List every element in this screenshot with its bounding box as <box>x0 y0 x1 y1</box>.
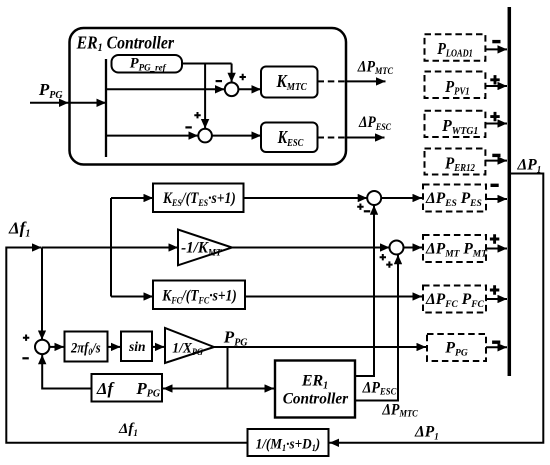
svg-text:2πf0/s: 2πf0/s <box>70 340 101 358</box>
svg-text:1/(M1·s+D1): 1/(M1·s+D1) <box>256 436 321 454</box>
svg-text:Controller: Controller <box>283 390 349 407</box>
svg-text:sin: sin <box>128 339 146 354</box>
svg-text:Δf: Δf <box>96 379 116 398</box>
svg-text:ER1 Controller: ER1 Controller <box>76 33 175 55</box>
